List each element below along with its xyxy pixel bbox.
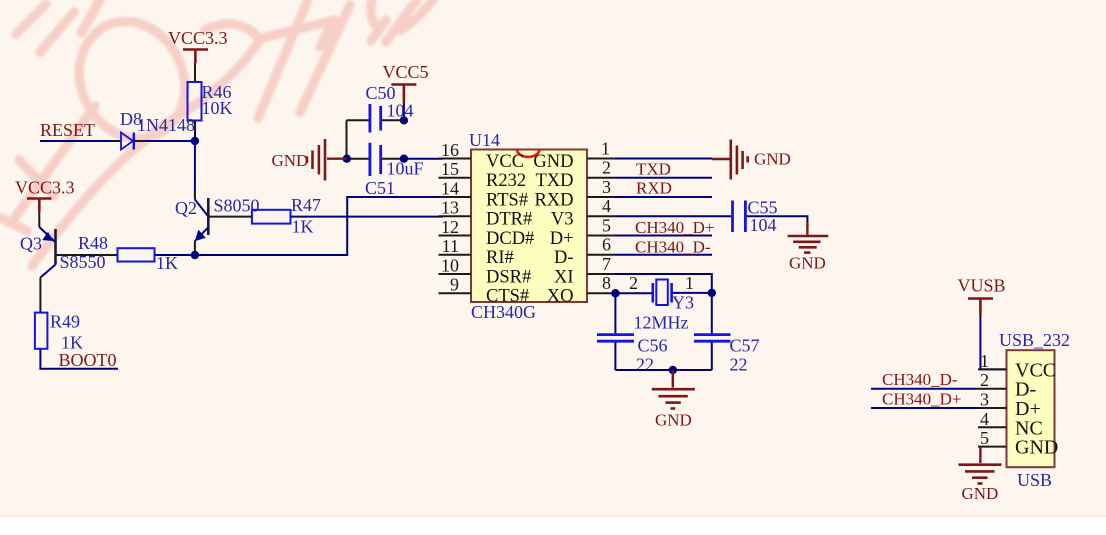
wire VCC5 down bbox=[403, 103, 405, 120]
wire Q2 emitter to node bbox=[194, 240, 196, 255]
node junction XO/C56 bbox=[611, 289, 619, 297]
svg-text:V3: V3 bbox=[551, 210, 574, 230]
U14 left pin numbers bbox=[441, 140, 459, 295]
svg-text:10K: 10K bbox=[202, 98, 233, 118]
connector USB_232 body bbox=[999, 330, 1070, 490]
svg-text:15: 15 bbox=[441, 159, 459, 179]
wire R46 to node bbox=[194, 121, 196, 132]
wire C56 leg bbox=[614, 293, 616, 333]
USB pin stubs bbox=[978, 369, 1007, 446]
svg-text:R47: R47 bbox=[291, 195, 321, 215]
U14 left pin names bbox=[486, 152, 534, 307]
svg-text:USB: USB bbox=[1017, 470, 1052, 490]
wire pin2 TXD bbox=[616, 177, 713, 179]
capacitor C55 104 bbox=[733, 198, 778, 236]
svg-text:16: 16 bbox=[441, 140, 459, 160]
svg-text:GND: GND bbox=[272, 151, 309, 170]
svg-text:Q2: Q2 bbox=[175, 198, 197, 218]
wire C57 to bottom rail bbox=[711, 343, 713, 371]
svg-text:USB_232: USB_232 bbox=[999, 330, 1070, 350]
ground (USB) bbox=[959, 465, 1002, 503]
wire crystal right to node bbox=[672, 292, 712, 294]
wire pin5 CH340_D+ bbox=[616, 235, 713, 237]
svg-text:8: 8 bbox=[602, 273, 611, 293]
svg-text:22: 22 bbox=[636, 355, 654, 375]
svg-text:12: 12 bbox=[441, 217, 459, 237]
svg-text:Y3: Y3 bbox=[672, 293, 694, 313]
node junction VCC5/C50 bbox=[400, 116, 408, 124]
wire pin8 XO to crystal left bbox=[616, 292, 653, 294]
wire R48 to node bbox=[155, 254, 195, 256]
svg-text:3: 3 bbox=[602, 177, 611, 197]
resistor R46 bbox=[188, 82, 233, 121]
svg-text:22: 22 bbox=[730, 355, 748, 375]
power VCC5 bbox=[383, 62, 429, 103]
svg-text:12MHz: 12MHz bbox=[634, 313, 689, 333]
svg-text:4: 4 bbox=[602, 196, 611, 216]
svg-text:DCD#: DCD# bbox=[486, 229, 534, 249]
capacitor C51 10uF bbox=[347, 143, 424, 198]
svg-text:10: 10 bbox=[441, 256, 459, 276]
transistor Q3 S8550 bbox=[20, 227, 106, 278]
svg-text:CH340_D-: CH340_D- bbox=[635, 237, 711, 256]
wire R49 to BOOT0 bbox=[40, 349, 118, 369]
wire VUSB to pin1 bbox=[980, 315, 1006, 369]
wire usb pin3 bbox=[871, 407, 978, 409]
diode D8 1N4148 bbox=[111, 109, 195, 150]
op IC U14 body bbox=[469, 130, 587, 322]
wire C56 to bottom rail bbox=[614, 343, 616, 371]
wire pin1 to GND bbox=[616, 158, 713, 160]
svg-text:R48: R48 bbox=[78, 233, 108, 253]
wire usb pin5 to ground bbox=[979, 447, 981, 463]
svg-text:D+: D+ bbox=[550, 229, 574, 249]
svg-text:RXD: RXD bbox=[636, 179, 672, 198]
svg-text:GND: GND bbox=[962, 484, 999, 503]
svg-text:104: 104 bbox=[750, 215, 777, 235]
svg-text:11: 11 bbox=[442, 236, 459, 256]
svg-text:R49: R49 bbox=[50, 312, 80, 332]
svg-text:1K: 1K bbox=[292, 217, 314, 237]
U14 left pin stubs bbox=[439, 159, 472, 294]
wire node to Q2 collector bbox=[194, 141, 196, 190]
svg-text:XO: XO bbox=[547, 287, 574, 307]
svg-text:7: 7 bbox=[602, 254, 611, 274]
ground (pin1, right-facing) bbox=[712, 140, 791, 180]
svg-text:104: 104 bbox=[387, 101, 414, 121]
svg-text:TXD: TXD bbox=[636, 160, 671, 179]
wire VCC3.3 to Q3 emitter bbox=[38, 212, 40, 227]
wire VCC3.3 to R46 bbox=[194, 63, 196, 82]
power VCC3.3 (top, R46) bbox=[168, 28, 228, 63]
svg-text:C51: C51 bbox=[365, 178, 395, 198]
node junction C51 left / GND bbox=[343, 155, 351, 163]
svg-text:XI: XI bbox=[554, 268, 574, 288]
USB pin names bbox=[1015, 359, 1058, 458]
wire R47 to pin13 bbox=[291, 216, 444, 218]
node junction R46/D8 bbox=[191, 137, 199, 145]
U14 right pin names bbox=[533, 152, 573, 307]
wire node to pin14 corner bbox=[195, 197, 443, 255]
ground (left of caps) bbox=[272, 139, 347, 181]
svg-text:RXD: RXD bbox=[534, 191, 573, 211]
svg-text:14: 14 bbox=[441, 179, 459, 199]
U14 right pin numbers bbox=[601, 139, 611, 294]
wire left leg bbox=[346, 120, 348, 158]
node junction crystal right bbox=[708, 289, 716, 297]
svg-text:VCC: VCC bbox=[486, 152, 524, 172]
svg-text:Q3: Q3 bbox=[20, 234, 42, 254]
capacitor C57 22 bbox=[694, 335, 760, 375]
svg-text:4: 4 bbox=[980, 409, 989, 429]
svg-text:2: 2 bbox=[629, 273, 638, 293]
wire Q3 base to R48 bbox=[56, 254, 118, 256]
node junction Q2 emitter / R48 bbox=[191, 251, 199, 259]
svg-text:2: 2 bbox=[980, 370, 989, 390]
svg-text:1: 1 bbox=[601, 139, 610, 159]
capacitor C50 104 bbox=[347, 83, 414, 133]
svg-text:6: 6 bbox=[602, 235, 611, 255]
wire pin7 XI to crystal right bbox=[616, 274, 712, 293]
USB pin numbers bbox=[980, 351, 989, 448]
svg-text:VCC3.3: VCC3.3 bbox=[15, 178, 75, 198]
svg-text:1N4148: 1N4148 bbox=[137, 115, 195, 135]
svg-text:R232: R232 bbox=[486, 171, 526, 191]
capacitor C56 22 bbox=[597, 335, 668, 375]
wire Q2 base to R47 bbox=[208, 216, 252, 218]
wire usb pin2 bbox=[871, 388, 978, 390]
svg-text:CH340_D+: CH340_D+ bbox=[882, 390, 961, 409]
svg-text:VCC3.3: VCC3.3 bbox=[168, 28, 228, 48]
svg-text:GND: GND bbox=[789, 254, 826, 273]
svg-text:RESET: RESET bbox=[40, 120, 95, 140]
node junction bottom rail bbox=[669, 366, 677, 374]
wire pin6 CH340_D- bbox=[616, 254, 713, 256]
svg-text:1: 1 bbox=[980, 351, 989, 371]
svg-text:CTS#: CTS# bbox=[486, 287, 529, 307]
svg-text:TXD: TXD bbox=[535, 171, 573, 191]
svg-text:C57: C57 bbox=[730, 336, 760, 356]
wire bottom rail bbox=[615, 369, 711, 371]
svg-text:GND: GND bbox=[655, 411, 692, 430]
resistor R49 bbox=[35, 312, 83, 353]
svg-text:DTR#: DTR# bbox=[486, 210, 532, 230]
svg-text:VCC5: VCC5 bbox=[383, 62, 429, 82]
svg-text:GND: GND bbox=[1015, 437, 1058, 459]
node junction C51 right / pin16 bbox=[400, 155, 408, 163]
svg-text:9: 9 bbox=[450, 275, 459, 295]
wire pin4 to C55 bbox=[616, 215, 732, 217]
svg-text:D-: D- bbox=[554, 248, 574, 268]
wire pin3 RXD bbox=[616, 196, 713, 198]
resistor R47 bbox=[252, 195, 321, 237]
svg-text:BOOT0: BOOT0 bbox=[59, 350, 117, 370]
resistor R48 bbox=[78, 233, 178, 273]
svg-text:DSR#: DSR# bbox=[486, 268, 531, 288]
transistor Q2 S8050 bbox=[175, 196, 260, 241]
svg-text:C56: C56 bbox=[638, 336, 668, 356]
wire RESET bbox=[40, 140, 111, 142]
svg-text:13: 13 bbox=[441, 198, 459, 218]
ground (C55) bbox=[788, 222, 829, 273]
power VUSB bbox=[958, 276, 1006, 316]
svg-text:GND: GND bbox=[754, 150, 791, 169]
svg-text:5: 5 bbox=[602, 216, 611, 236]
ground (crystal) bbox=[652, 370, 695, 430]
svg-text:GND: GND bbox=[533, 152, 573, 172]
svg-text:CH340_D-: CH340_D- bbox=[882, 370, 958, 389]
svg-text:RTS#: RTS# bbox=[486, 191, 528, 211]
svg-text:2: 2 bbox=[602, 158, 611, 178]
svg-text:CH340_D+: CH340_D+ bbox=[635, 218, 714, 237]
svg-text:3: 3 bbox=[980, 390, 989, 410]
svg-text:1: 1 bbox=[685, 273, 694, 293]
svg-text:U14: U14 bbox=[469, 130, 500, 150]
svg-text:RI#: RI# bbox=[486, 248, 514, 268]
power VCC3.3 (left, Q3) bbox=[15, 178, 75, 213]
U14 right pin stubs bbox=[587, 159, 616, 294]
wire Q3 collector to R49 bbox=[39, 278, 41, 313]
wire C57 leg bbox=[711, 293, 713, 333]
wire C55 to GND corner bbox=[747, 216, 808, 222]
wire diode to node bbox=[146, 140, 195, 142]
crystal Y3 12MHz bbox=[629, 273, 694, 333]
wire to pin16 bbox=[404, 158, 443, 160]
svg-text:5: 5 bbox=[980, 428, 989, 448]
svg-text:VUSB: VUSB bbox=[958, 276, 1006, 296]
